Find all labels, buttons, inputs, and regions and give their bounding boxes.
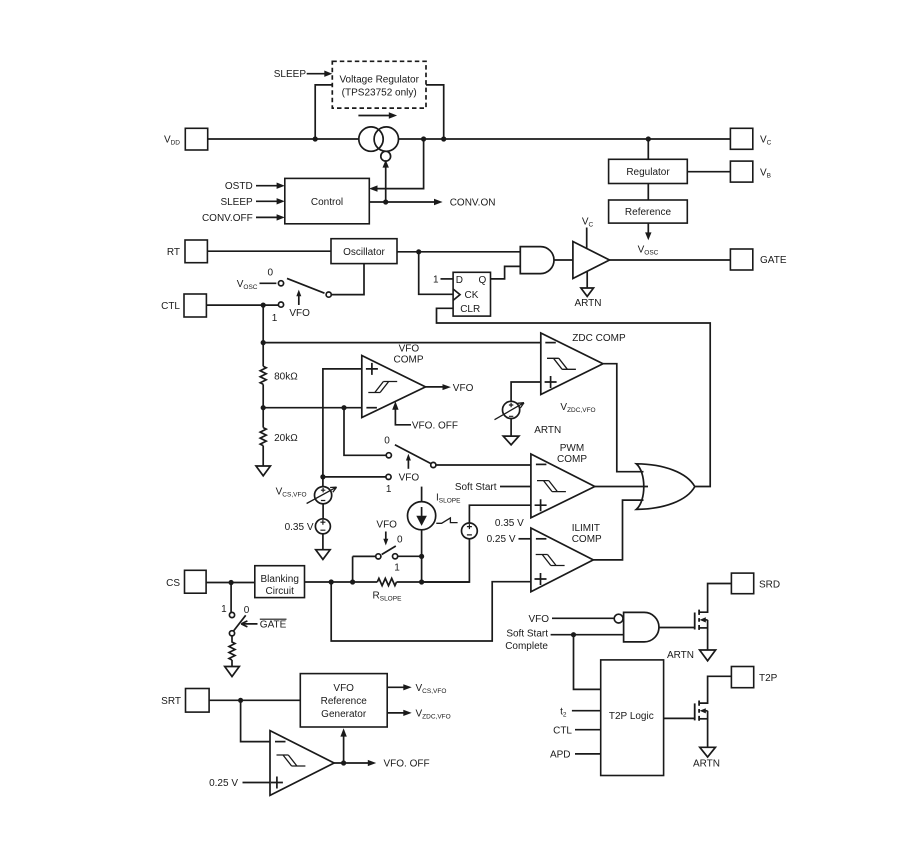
wire switch S2 common to PWM minus (436, 464, 531, 466)
wire soft start input (500, 486, 531, 488)
wire VC to buffer (586, 228, 588, 249)
junction dot contact1 (320, 474, 325, 479)
svg-text:CONV.OFF: CONV.OFF (202, 213, 253, 224)
resistor CS pulldown (229, 636, 235, 660)
switch S4 common and arm (229, 631, 234, 636)
wire buffer to GATE (610, 259, 731, 261)
port GATE (730, 249, 752, 270)
wire CONV.ON out (369, 201, 436, 203)
arrowhead control to source (383, 160, 389, 168)
svg-text:0: 0 (384, 435, 390, 446)
svg-text:CLR: CLR (460, 304, 480, 315)
wire buffer to ARTN ground (586, 272, 588, 288)
wire VFO comp plus input (323, 369, 362, 475)
wire S3 drop to RSLOPE row (352, 556, 354, 582)
svg-text:ARTN: ARTN (667, 650, 694, 661)
VFO reference generator box (300, 674, 387, 727)
svg-text:0.25 V: 0.25 V (209, 778, 238, 789)
OR gate O1 (636, 464, 695, 510)
svg-text:Generator: Generator (321, 709, 367, 720)
svg-text:SRD: SRD (759, 580, 780, 591)
wire 0.35V to PWM plus (469, 505, 531, 523)
wire regulator to reference (647, 184, 649, 201)
junction dot CONV.ON (383, 199, 388, 204)
switch S3 select arrow (385, 532, 387, 540)
svg-text:1: 1 (272, 313, 278, 324)
ground VCS chain (316, 550, 330, 560)
port SRD (731, 573, 753, 594)
ILIMIT plus glyph (535, 573, 547, 585)
wire oscillator to AND gate (397, 251, 520, 253)
junction dot blanking out (329, 579, 334, 584)
reference block (609, 200, 688, 223)
svg-text:VFO: VFO (399, 343, 420, 354)
wire PWM out to OR (595, 486, 648, 488)
wire ZDC out to OR (603, 364, 644, 472)
wire SRT in (209, 699, 300, 701)
junction dot divider (261, 405, 266, 410)
svg-text:PWM: PWM (560, 443, 584, 454)
wire CTL to ZDC minus (263, 342, 541, 344)
switch S2 select arrow (407, 460, 409, 469)
svg-text:COMP: COMP (572, 534, 602, 545)
source 0.35V left (322, 504, 324, 519)
wire CTL vertical (262, 305, 264, 366)
switch S1 VOSC contact (260, 282, 277, 284)
regulator block (647, 139, 649, 159)
svg-text:VFO. OFF: VFO. OFF (384, 759, 430, 770)
svg-text:VFO. OFF: VFO. OFF (412, 421, 458, 432)
svg-text:COMP: COMP (557, 454, 587, 465)
svg-text:VFO: VFO (333, 683, 354, 694)
wire VDD drop to control (376, 139, 424, 189)
wire soft start complete to NAND (551, 634, 624, 636)
switch S4 CS contact (230, 583, 232, 613)
port VC (730, 128, 752, 149)
svg-text:T2P: T2P (759, 673, 778, 684)
wire SLEEP arrow into regulator (307, 73, 326, 75)
switch S2 contact 0 (344, 408, 386, 456)
wire oscillator to switch common (331, 264, 364, 295)
junction dot soft start complete (571, 632, 576, 637)
port SRT (186, 689, 210, 713)
switch S3 bypass row (353, 555, 376, 557)
svg-text:CONV.ON: CONV.ON (450, 198, 496, 209)
svg-text:ILIMIT: ILIMIT (572, 523, 600, 534)
source 0.35V PWM (462, 523, 478, 539)
T2P logic box (601, 660, 664, 776)
svg-text:0.35 V: 0.35 V (495, 518, 524, 529)
VFO comparator U2 (362, 356, 426, 418)
svg-text:Reference: Reference (625, 207, 672, 218)
svg-text:D: D (456, 275, 463, 286)
svg-text:VFO: VFO (528, 614, 549, 625)
svg-text:Oscillator: Oscillator (343, 247, 385, 258)
junction dot VDD-regulator (646, 136, 651, 141)
arrowhead into control right (369, 185, 378, 191)
svg-text:ARTN: ARTN (693, 758, 720, 769)
NAND input bubble (614, 614, 623, 623)
arrowhead VZDC,VFO (403, 710, 411, 716)
current source I-VDD (359, 127, 399, 161)
wire VFO output (426, 386, 444, 388)
wire VDD rail (208, 138, 731, 140)
ILIMIT comparator U5 (531, 528, 593, 592)
resistor 20k (260, 428, 266, 446)
wire blanking out (305, 581, 378, 583)
junction dot CS (229, 580, 234, 585)
wire SRT comp out VFO OFF (334, 762, 369, 764)
port T2P (731, 667, 753, 688)
wire VFO to NAND bubble (552, 617, 614, 619)
svg-text:APD: APD (550, 749, 571, 760)
svg-text:Complete: Complete (505, 641, 548, 652)
junction dot VDD-control (421, 136, 426, 141)
GATE overline (260, 618, 287, 620)
ZDC minus glyph (545, 342, 556, 344)
mosfet Q1 (695, 584, 732, 651)
junction dot osc-clock (416, 249, 421, 254)
junction dot VFO OFF (341, 760, 346, 765)
svg-text:VFO: VFO (453, 383, 474, 394)
wire 1 to D input (441, 278, 454, 280)
SRT comp hysteresis (277, 755, 306, 766)
svg-text:Blanking: Blanking (261, 574, 299, 585)
svg-text:CK: CK (465, 290, 479, 301)
svg-text:0.25 V: 0.25 V (487, 534, 516, 545)
junction dot CTL (261, 303, 266, 308)
svg-text:0: 0 (397, 534, 403, 545)
wire regulator to VB (687, 171, 730, 173)
wire soft start complete to T2P logic (574, 635, 601, 690)
current direction arrow (358, 115, 390, 117)
ground divider (256, 466, 270, 476)
PWM hysteresis (537, 481, 566, 492)
port CS (185, 570, 207, 593)
wire CS to blanking (206, 582, 255, 584)
wire control to current source (385, 167, 387, 203)
switch S1 VFO select arrow (298, 296, 300, 305)
wire CTL in (206, 304, 278, 306)
svg-text:ZDC COMP: ZDC COMP (572, 333, 626, 344)
svg-text:VFO: VFO (376, 519, 397, 530)
ground ARTN buffer (581, 288, 594, 296)
wire 0.25V to SRT comp (243, 782, 271, 784)
svg-text:SLEEP: SLEEP (274, 69, 307, 80)
wire RSLOPE to 0.35V (397, 581, 470, 583)
switch S1 VFO contact (278, 302, 283, 307)
wire NAND out to Q1 gate (659, 627, 695, 629)
wire clock drop to flip-flop (419, 252, 453, 294)
svg-text:Reference: Reference (321, 696, 368, 707)
resistor 80k (260, 366, 266, 384)
SRT comparator U6 (270, 731, 334, 796)
svg-text:Soft Start: Soft Start (506, 629, 548, 640)
junction dot ISLOPE-switch (419, 554, 424, 559)
svg-text:CS: CS (166, 578, 180, 589)
svg-text:COMP: COMP (394, 355, 424, 366)
wire APD in t2p (575, 753, 601, 755)
ZDC plus glyph (545, 376, 557, 388)
switch S2 common and arm (431, 462, 436, 467)
PWM comparator U4 (531, 454, 595, 518)
wire VZDC,VFO out arrow (387, 712, 404, 714)
junction dot VDD-regdrop (313, 136, 318, 141)
VFO comp minus glyph (366, 407, 377, 409)
PWM plus glyph (535, 499, 547, 511)
wire dashed-box right drop (426, 85, 444, 139)
junction dot SRT (238, 698, 243, 703)
svg-text:1: 1 (433, 274, 439, 285)
slope ramp symbol (436, 518, 457, 523)
current source ISLOPE (421, 487, 423, 502)
svg-text:(TPS23752 only): (TPS23752 only) (342, 88, 417, 99)
wire t2 in (572, 710, 601, 712)
wire ISLOPE down (421, 530, 423, 582)
ground ARTN ZDC (503, 436, 519, 445)
port VDD (185, 128, 207, 150)
wire source to ground (510, 419, 512, 437)
PWM minus glyph (536, 463, 547, 465)
svg-text:VFO: VFO (399, 472, 420, 483)
oscillator block (207, 250, 331, 252)
switch S1 common and arm (326, 292, 331, 297)
arrowhead VFO out (443, 384, 451, 390)
wire CS feedback to ILIMIT plus (331, 582, 531, 641)
svg-text:Regulator: Regulator (626, 167, 670, 178)
SRT comp plus glyph (271, 777, 283, 789)
svg-text:0: 0 (268, 267, 274, 278)
svg-text:Circuit: Circuit (266, 586, 295, 597)
VFO comp hysteresis (368, 382, 397, 393)
mosfet Q2 (695, 676, 732, 747)
svg-text:1: 1 (394, 562, 400, 573)
wire AND to buffer (554, 259, 573, 261)
wire source to ground (322, 534, 324, 550)
arrowhead SLEEP ctrl (277, 198, 285, 204)
ZDC comparator U3 (541, 333, 603, 395)
wire SLEEP in (256, 200, 279, 202)
port CTL (184, 294, 206, 317)
svg-text:GATE: GATE (760, 255, 787, 266)
ZDC hysteresis (547, 358, 576, 369)
flip-flop U1 (453, 272, 490, 316)
wire Q to AND gate (491, 266, 521, 279)
svg-text:ARTN: ARTN (534, 425, 561, 436)
svg-text:T2P Logic: T2P Logic (609, 711, 654, 722)
arrowhead OSTD (277, 183, 285, 189)
VFO comp plus glyph (366, 363, 378, 375)
svg-text:Q: Q (479, 275, 487, 286)
junction dot VDD-right (441, 136, 446, 141)
junction dot S3 drop (350, 579, 355, 584)
resistor RSLOPE (377, 578, 396, 585)
arrowhead VCS,VFO (403, 684, 411, 690)
svg-text:80kΩ: 80kΩ (274, 372, 298, 383)
wire OSTD in (256, 185, 279, 187)
switch S2 contact 1 (323, 476, 386, 478)
svg-text:SRT: SRT (161, 696, 181, 707)
wire T2P logic to Q2 gate (664, 717, 695, 719)
ground CS pulldown (231, 660, 233, 667)
svg-text:Soft Start: Soft Start (455, 482, 497, 493)
wire divider mid (262, 384, 264, 427)
wire ZDC plus input (511, 382, 541, 401)
AND gate A1 (520, 247, 554, 274)
junction dot ISLOPE-rslope (419, 579, 424, 584)
arrowhead SLEEP (324, 71, 332, 77)
ground ARTN Q1 (700, 650, 716, 661)
wire ILIMIT out to OR (593, 500, 643, 560)
wire CTL in t2p (575, 729, 601, 731)
svg-text:OSTD: OSTD (225, 181, 253, 192)
SRT comp minus glyph (275, 741, 286, 743)
wire 0.25V to ILIMIT minus (519, 538, 531, 540)
gate driver buffer (573, 242, 610, 279)
port VB (730, 161, 752, 182)
arrowhead VFO OFF SRT (368, 760, 376, 766)
wire 20k to ground (262, 446, 264, 466)
wire VFO OFF arrow (395, 409, 411, 425)
svg-text:VFO: VFO (289, 308, 310, 319)
ILIMIT minus glyph (536, 538, 547, 540)
svg-text:SLEEP: SLEEP (220, 197, 253, 208)
wire 0.35V to RSLOPE row (422, 539, 470, 582)
svg-text:0: 0 (244, 605, 250, 616)
wire dashed-box left drop (315, 85, 332, 139)
source VCS,VFO (322, 477, 324, 487)
source VZDC,VFO (503, 401, 520, 418)
wire divider to VFO comp minus (263, 407, 361, 409)
ground ARTN Q2 (700, 747, 716, 757)
wire SRT to comparator minus (241, 700, 270, 741)
gate select arrow (241, 621, 257, 627)
svg-text:1: 1 (386, 484, 392, 495)
arrowhead VOSC (645, 232, 651, 240)
wire CONV.OFF in (256, 216, 279, 218)
arrowhead current direction (389, 112, 397, 118)
wire SRT comp out up arrow (343, 736, 345, 764)
blanking circuit box (255, 566, 305, 598)
svg-text:ARTN: ARTN (574, 298, 601, 309)
wire reference VOSC arrow (647, 223, 649, 233)
svg-text:0.35 V: 0.35 V (285, 522, 314, 533)
port RT (185, 240, 207, 263)
svg-text:Control: Control (311, 197, 343, 208)
svg-text:20kΩ: 20kΩ (274, 433, 298, 444)
voltage regulator dashed box (332, 61, 426, 108)
svg-text:GATE: GATE (260, 620, 287, 631)
arrowhead CONV.OFF (277, 214, 285, 220)
junction dot VFOcomp-minus (341, 405, 346, 410)
svg-text:Voltage Regulator: Voltage Regulator (339, 75, 419, 86)
svg-text:CTL: CTL (161, 301, 180, 312)
NAND gate A2 (624, 612, 659, 642)
wire OR out feedback to CLR (437, 308, 711, 486)
junction dot CTL-ZDC (261, 340, 266, 345)
wire VCS,VFO out arrow (387, 686, 404, 688)
svg-text:CTL: CTL (553, 725, 572, 736)
svg-text:RT: RT (167, 247, 180, 258)
control box (285, 178, 370, 223)
arrowhead CONV.ON (434, 199, 443, 205)
ILIMIT hysteresis (536, 555, 565, 566)
svg-text:1: 1 (221, 604, 227, 615)
